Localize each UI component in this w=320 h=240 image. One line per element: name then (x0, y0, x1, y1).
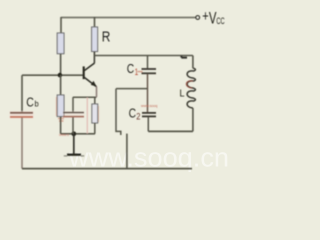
wire C2 bottom lead (147, 117, 149, 131)
label C1 (127, 61, 143, 77)
wire tap to rail (126, 134, 128, 169)
capacitor C1 (142, 69, 157, 73)
wire L bottom lead (192, 108, 194, 131)
svg-text:www.s: www.s (59, 133, 69, 137)
wire Cb bottom lead (21, 118, 23, 169)
label +Vcc (202, 9, 225, 27)
svg-text:C: C (26, 94, 34, 109)
wire Ce bottom lead (72, 117, 74, 133)
wire R1 top lead (60, 17, 62, 34)
wire Ce top lead (72, 97, 74, 112)
wire tap drop (116, 89, 121, 135)
svg-text:b: b (35, 99, 39, 109)
svg-text:www.sooq: www.sooq (141, 104, 157, 108)
svg-text:R: R (102, 29, 111, 45)
wire left drop to Cb (21, 75, 23, 112)
capacitor C2 (142, 113, 156, 117)
svg-text:C: C (129, 106, 136, 121)
wire Re top lead (94, 97, 96, 104)
resistor Re (92, 104, 99, 123)
wire L top lead (192, 56, 194, 69)
wire R2 bottom lead (60, 117, 62, 134)
svg-text:V: V (209, 10, 217, 28)
artifact pink vertical (86, 98, 88, 134)
terminal Vcc circle (196, 16, 200, 20)
label L (180, 89, 185, 100)
wire C1-C2 link (147, 74, 149, 112)
capacitor Ce (63, 111, 85, 119)
svg-text:2: 2 (136, 111, 140, 121)
wire emitter vertical (96, 87, 98, 98)
svg-text:CC: CC (216, 16, 225, 26)
watermark www.sooq.cn (68, 143, 229, 173)
wire ground drop (73, 134, 75, 154)
wire top supply rail (61, 17, 196, 19)
wire C1 top lead (147, 56, 149, 69)
svg-text:C: C (127, 61, 134, 76)
resistor R2 (56, 95, 64, 121)
wire collector tank line (94, 55, 192, 57)
wire tank bottom line (148, 130, 193, 132)
svg-text:+: + (202, 9, 208, 25)
node emitter-ground junction dot (71, 131, 76, 136)
label Cb (26, 94, 39, 109)
wire base line (22, 74, 84, 76)
wire R1 bottom lead (60, 54, 62, 75)
artifact dark dash top right (181, 56, 187, 58)
capacitor Cb (10, 111, 34, 119)
label C2 (129, 106, 141, 122)
wire R2 top lead (60, 75, 62, 95)
label R (102, 29, 111, 45)
resistor R (92, 27, 98, 52)
artifact red text above C2 (141, 104, 157, 108)
wire tap line left (116, 88, 148, 90)
svg-text:L: L (180, 89, 185, 100)
ground (64, 155, 84, 156)
artifact red smudge near bottom dot (59, 133, 69, 137)
wire collector lead (93, 52, 95, 64)
inductor L (186, 68, 195, 108)
wire R top lead (94, 17, 96, 27)
wire emitter bottom line (61, 133, 95, 135)
wire bottom rail (22, 168, 192, 170)
wire Re bottom lead (94, 123, 96, 134)
transistor Q1 (84, 63, 97, 87)
wire emitter link line (73, 96, 97, 98)
node base junction dot (58, 73, 63, 78)
resistor R1 (57, 33, 64, 54)
